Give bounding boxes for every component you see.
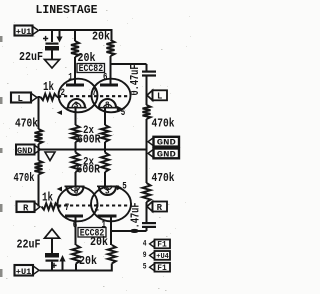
svg-text:2: 2 — [61, 88, 66, 99]
svg-text:22uF: 22uF — [17, 238, 41, 252]
svg-text:GND: GND — [17, 146, 33, 156]
svg-text:5: 5 — [143, 263, 147, 272]
svg-text:470k: 470k — [152, 117, 175, 131]
svg-text:LINESTAGE: LINESTAGE — [36, 3, 98, 17]
svg-text:+U1: +U1 — [16, 267, 32, 277]
svg-text:L: L — [157, 92, 162, 102]
svg-text:ECC82: ECC82 — [79, 63, 104, 75]
svg-text:GND: GND — [157, 149, 176, 159]
svg-text:GND: GND — [157, 138, 176, 148]
svg-text:1k: 1k — [43, 80, 54, 94]
svg-text:0.47uF: 0.47uF — [129, 203, 143, 234]
svg-text:1: 1 — [68, 73, 73, 84]
svg-text:+U4: +U4 — [156, 253, 169, 261]
svg-text:22uF: 22uF — [19, 50, 43, 64]
svg-text:6: 6 — [103, 73, 108, 84]
svg-text:5: 5 — [122, 182, 127, 193]
svg-text:470k: 470k — [14, 171, 35, 185]
svg-text:F1: F1 — [157, 264, 167, 273]
svg-text:+U1: +U1 — [16, 27, 32, 37]
svg-text:L: L — [18, 94, 23, 104]
svg-text:20k: 20k — [90, 235, 108, 249]
svg-text:470k: 470k — [15, 117, 38, 131]
svg-text:470k: 470k — [152, 171, 175, 185]
svg-text:R: R — [23, 203, 29, 213]
svg-text:20k: 20k — [92, 30, 110, 44]
svg-text:R: R — [157, 203, 163, 213]
svg-text:4: 4 — [143, 239, 147, 248]
svg-text:7: 7 — [92, 88, 97, 99]
svg-text:F1: F1 — [157, 241, 167, 250]
svg-text:5: 5 — [121, 108, 126, 119]
svg-text:9: 9 — [143, 251, 147, 260]
svg-text:0.47uF: 0.47uF — [128, 65, 142, 96]
